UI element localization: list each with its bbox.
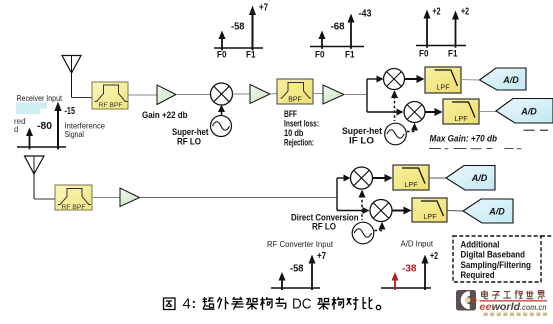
logo slogan (faint)	[484, 313, 548, 316]
svg-text:Receiver Input: Receiver Input	[17, 94, 63, 103]
svg-text:F0: F0	[315, 50, 325, 61]
svg-text:A/D: A/D	[488, 207, 505, 217]
svg-text:LPF: LPF	[423, 212, 437, 221]
svg-text:Digital Baseband: Digital Baseband	[461, 249, 526, 259]
band-pass filter RF BPF (bottom chain)	[55, 185, 92, 211]
A/D converter AD3	[446, 166, 495, 191]
svg-text:BPF: BPF	[288, 97, 302, 104]
svg-text:Insert loss:: Insert loss:	[284, 119, 319, 129]
spectrum plot S1 (after first mixer)	[214, 6, 263, 51]
mixer M2	[384, 69, 405, 90]
antenna ANT1	[62, 56, 81, 98]
wire	[233, 93, 251, 95]
svg-text:RF BPF: RF BPF	[99, 102, 123, 109]
svg-text:Super-het: Super-het	[172, 127, 209, 137]
low-pass filter LPF2	[443, 99, 479, 124]
svg-text:+2: +2	[461, 7, 469, 18]
svg-text:Required: Required	[461, 270, 495, 280]
svg-text:ee: ee	[479, 302, 492, 313]
mixer M3	[404, 102, 425, 123]
highlight block	[16, 103, 47, 109]
oscillator IF LO	[385, 123, 407, 145]
oscillator RF LO (super-het)	[211, 116, 232, 137]
svg-text:-15: -15	[65, 106, 76, 117]
svg-text:F1: F1	[448, 49, 458, 60]
wire branch to M5	[337, 207, 370, 214]
svg-text:-38: -38	[402, 264, 417, 275]
dashed line RF LO to M5	[375, 222, 386, 231]
svg-text:.com.cn: .com.cn	[520, 303, 546, 312]
dashed line IF LO to M3	[407, 123, 418, 132]
wire	[128, 94, 157, 96]
logo: EEWorld	[456, 290, 477, 311]
low-pass filter LPF4	[412, 198, 447, 222]
svg-text:RF LO: RF LO	[177, 137, 201, 147]
svg-text:-68: -68	[331, 22, 345, 33]
svg-text:-43: -43	[359, 9, 372, 20]
label BFF Insert loss	[284, 109, 319, 148]
wire branch to M2	[367, 76, 384, 83]
svg-text:LPF: LPF	[404, 180, 418, 189]
spectrum plot S3 (at A/D)	[416, 10, 466, 48]
logo red line	[480, 300, 548, 301]
svg-text:LPF: LPF	[436, 83, 450, 92]
svg-text:A/D Input: A/D Input	[401, 240, 434, 249]
svg-text:+2: +2	[430, 251, 438, 262]
wire LPF3 to AD3	[429, 177, 447, 179]
svg-text:Super-het: Super-het	[342, 126, 382, 136]
antenna ANT2	[25, 156, 45, 199]
amplifier A2	[250, 85, 270, 104]
svg-text:DC: DC	[292, 296, 312, 313]
logo chinese 电子工程世界	[482, 290, 545, 299]
band-pass filter BPF (IF)	[277, 79, 313, 104]
wire LPF4 to AD4	[447, 210, 464, 213]
amplifier A4	[120, 188, 140, 207]
wire branch to M4	[337, 175, 351, 182]
svg-text:-58: -58	[290, 264, 304, 275]
svg-text:LPF: LPF	[454, 114, 468, 123]
wire split node (DC)	[336, 178, 338, 211]
arrow M4 to LPF3	[373, 174, 393, 182]
svg-text:Rejection:: Rejection:	[284, 138, 314, 148]
svg-text:+2: +2	[433, 7, 441, 18]
svg-text:F0: F0	[419, 49, 429, 60]
svg-text:RF BPF: RF BPF	[62, 204, 86, 211]
spectrum plot: receiver input (left)	[17, 102, 66, 150]
svg-text:RF Converter Input: RF Converter Input	[267, 240, 334, 249]
mixer M5	[370, 200, 392, 222]
svg-text:F0: F0	[217, 50, 227, 61]
mixer M1	[211, 83, 233, 105]
svg-text:BFF: BFF	[284, 109, 297, 119]
note box: additional baseband filtering	[453, 236, 553, 282]
svg-text:+7: +7	[259, 3, 268, 14]
arrow M3 to LPF2	[425, 108, 443, 116]
spectrum plot S5 (A/D input)	[381, 255, 431, 291]
amplifier A3	[323, 85, 344, 104]
svg-text:d: d	[14, 125, 18, 134]
spectrum plot S4 (RF converter input)	[271, 255, 320, 291]
wire	[176, 94, 211, 96]
A/D converter AD4	[463, 199, 513, 223]
svg-text:RF LO: RF LO	[312, 222, 336, 232]
svg-text:world: world	[492, 302, 521, 313]
long wire to split	[140, 197, 338, 199]
svg-text:A/D: A/D	[502, 75, 519, 85]
svg-text:Gain +22 db: Gain +22 db	[142, 110, 188, 120]
wire antenna to RF BPF	[72, 97, 93, 99]
wire LPF2 to AD2	[479, 111, 497, 113]
arrow M2 to LPF1	[405, 75, 425, 83]
svg-text:F1: F1	[345, 50, 355, 61]
svg-text:A/D: A/D	[520, 107, 537, 117]
svg-text:A/D: A/D	[471, 173, 488, 183]
low-pass filter LPF3	[393, 165, 429, 190]
wire	[92, 197, 120, 199]
mixer M4	[351, 167, 373, 189]
svg-text:-80: -80	[37, 121, 52, 132]
amplifier A1	[157, 85, 176, 105]
svg-text:Max Gain: +70 db: Max Gain: +70 db	[430, 134, 498, 144]
caption: 图 4: 超外差架构与 DC 架构对比	[164, 297, 381, 310]
A/D converter AD2	[496, 99, 553, 124]
arrow RF LO to M1	[218, 105, 225, 116]
svg-text:10 db: 10 db	[284, 128, 304, 138]
dashed line RF LO to M4	[359, 190, 366, 221]
wire LPF1 to AD1	[461, 79, 480, 82]
wire	[313, 93, 323, 95]
svg-text:+7: +7	[317, 251, 326, 262]
dashed line IF LO to M2	[391, 90, 398, 121]
clipped text line (letter tops)	[429, 130, 548, 150]
svg-text:4: 4	[183, 296, 191, 313]
svg-text:Signal: Signal	[65, 130, 85, 139]
oscillator RF LO (DC)	[352, 222, 374, 244]
spectrum plot S2 (after BPF)	[310, 14, 364, 49]
svg-text:F1: F1	[246, 50, 256, 61]
low-pass filter LPF1	[425, 67, 461, 93]
wire split node	[366, 79, 368, 112]
svg-text:Additional: Additional	[461, 240, 500, 250]
wire to split	[344, 94, 367, 96]
band-pass filter RF BPF (top chain)	[92, 82, 128, 109]
A/D converter AD1	[480, 68, 527, 90]
svg-text:-58: -58	[231, 22, 245, 33]
arrow M5 to LPF4	[392, 207, 412, 215]
svg-text::: :	[192, 295, 197, 311]
wire	[34, 198, 55, 200]
wire	[270, 93, 277, 96]
svg-text:IF LO: IF LO	[349, 136, 374, 146]
svg-text:Sampling/Filtering: Sampling/Filtering	[461, 260, 532, 270]
wire branch to M3	[367, 109, 404, 116]
